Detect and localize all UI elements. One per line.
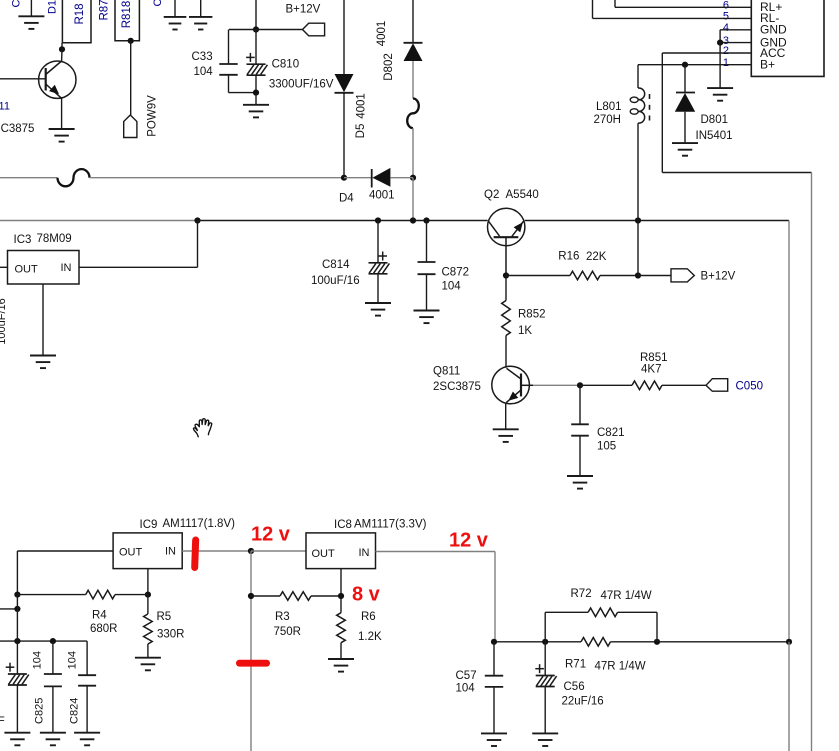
wire R4 left lead [17,594,85,596]
svg-text:105: 105 [597,441,616,453]
transistor Q2 arrow [514,222,523,232]
diode D5 cathode bar [335,92,354,94]
svg-text:R852: R852 [518,309,546,321]
wire C814 lower stem [377,274,379,303]
capacitor C825 [44,674,62,686]
wire C56 lower stem [544,687,546,734]
wire R818 to POW9V [130,41,132,116]
wire R3 left lead [251,595,280,597]
svg-text:12 v: 12 v [449,530,489,552]
resistor R71 zigzag [581,638,611,647]
svg-text:1.2K: 1.2K [358,631,382,643]
IC IC8 AM1117 box [306,533,376,569]
resistor R18 box [62,0,91,43]
svg-text:IN: IN [61,262,72,274]
svg-text:C33: C33 [192,51,213,63]
diode D801 cathode bar [676,92,695,94]
svg-text:B+: B+ [760,58,775,72]
wire pin4 GND [720,29,751,31]
svg-text:R3: R3 [275,611,290,623]
wire B+12V vertical from top [255,0,257,30]
wire C825 stem [52,641,54,674]
svg-text:C57: C57 [456,670,477,682]
IC IC3 78M09 box [8,251,80,285]
transistor Q2 stem [505,237,507,275]
wire IC3 IN up to bus [197,221,199,268]
svg-text:C: C [152,0,164,6]
svg-text:78M09: 78M09 [37,233,72,245]
ground under C821 [567,476,593,489]
capacitor C810 electrolytic [246,53,267,75]
ground under C814 [365,303,391,316]
transistor Q811 emitter arrow [508,392,518,401]
junction C825 tap [50,638,56,644]
wire R5 top lead [147,595,149,614]
wire B+ rail down right side [788,221,790,642]
transistor top-left emitter arrow [49,85,59,95]
wire hump to D4 junction [412,128,414,178]
svg-text:D5: D5 [355,124,367,139]
svg-text:R16: R16 [558,251,579,263]
svg-text:AM1117(1.8V): AM1117(1.8V) [163,518,236,530]
ground bottom-left 1 [4,733,30,746]
capacitor (electrolytic, bottom-left) [6,663,29,685]
wire pin1 B+ [638,64,751,66]
ground under connector pins [707,88,733,101]
wire collector from R18 bottom [61,43,63,50]
wire hump horizontal [58,169,90,186]
connector block box [751,0,824,76]
wire B+ down to coil [637,65,639,88]
svg-text:100uF/16: 100uF/16 [311,275,360,287]
transistor Q 2SC3875 top-left circle [39,61,76,98]
wire bottom rail right [611,641,791,643]
svg-text:22K: 22K [586,251,607,263]
capacitor C824 [78,675,96,686]
wire R72 branch right [618,611,657,613]
wire D4 line left segment [0,177,58,179]
svg-text:C872: C872 [442,267,470,279]
wire B+ node to flag [638,275,671,277]
wire gnd stem mid-2 [200,0,202,17]
svg-text:8 v: 8 v [352,584,381,606]
capacitor C57 [485,676,503,687]
svg-text:750R: 750R [274,626,302,638]
svg-text:104: 104 [194,66,214,78]
junction Q2 base node [503,272,509,278]
wire C810 bottom [255,75,257,92]
wire R6 top lead [340,596,342,613]
junction R3 tap [248,593,254,599]
transistor top-left collector slant [46,61,62,75]
transistor Q811 collector slant [507,368,522,379]
diode D802 cathode bar [404,42,423,44]
ground under transistor TL [49,129,75,142]
svg-text:AM1117(3.3V): AM1117(3.3V) [354,519,427,531]
wire R5 bottom lead [147,644,149,658]
svg-text:Q811: Q811 [433,366,460,378]
svg-text:1: 1 [723,57,729,69]
wire IC3 OUT lead [0,266,8,268]
wire hump vertical (ferrite loop) [407,99,419,129]
capacitor C33 [219,64,237,75]
svg-text:IC8: IC8 [334,519,352,531]
wire bottom rail left [494,641,581,643]
ground under R5 [135,658,161,671]
wire C824 stem [86,641,88,675]
wire left rail vertical [16,595,18,674]
wire R851 to C050 flag [662,384,706,386]
svg-text:2SC3875: 2SC3875 [433,381,481,393]
wire C56 stem [544,642,546,676]
svg-text:R6: R6 [361,611,376,623]
junction IC3 IN tap [194,217,200,223]
diode D4 cathode bar [371,169,373,188]
wire B+ rail below [788,642,790,751]
wire R72 branch right down [656,612,658,642]
IC IC9 AM1117 box [113,533,182,569]
ground under R6 [328,659,354,672]
svg-text:270H: 270H [594,114,622,126]
connector C050 flag (points left) [706,379,728,392]
connector B+12V flag (points right) [671,269,694,282]
diode D802 triangle [404,43,423,61]
capacitor C56 electrolytic [535,664,556,686]
junction R4/R5 node [145,592,151,598]
junction B+ rail bottom [786,639,792,645]
transistor Q2 circle [488,208,525,245]
ground under C872 [414,311,440,324]
junction D4/D802 [410,175,416,181]
svg-text:D801: D801 [701,114,729,126]
svg-text:R5: R5 [157,611,172,623]
wire main bus black [198,220,488,222]
svg-text:L801: L801 [596,101,622,113]
resistor R3 zigzag [280,592,311,601]
wire pin6 up [614,0,616,7]
svg-text:R818: R818 [121,1,133,29]
capacitor C814 electrolytic [369,252,390,274]
resistor R818 box [115,0,139,41]
wire D801 stem [684,65,686,93]
svg-text:12 v: 12 v [251,524,291,546]
wire ACC long vertical right [811,173,813,751]
svg-text:F: F [0,715,5,727]
svg-text:3300UF/16V: 3300UF/16V [269,79,334,91]
wire IC8 IN down [494,552,496,642]
svg-text:1K: 1K [518,325,532,337]
wire IC8 stem [340,569,342,596]
wire C57 lower stem [493,687,495,734]
wire emitter to ground TL [61,98,63,129]
wire left cap rail [0,640,87,642]
junction R4 left node [14,592,20,598]
ground bottom-left 2 [40,733,66,746]
svg-text:R18: R18 [74,3,86,24]
ground top-left [18,16,44,29]
transistor Q2 right slant [512,221,524,237]
wire pin5 up [592,0,594,18]
junction B+ rail tap [635,217,641,223]
wire bl ecap lower stem [16,685,18,733]
resistor R851 zigzag [632,381,662,390]
svg-text:C814: C814 [322,259,350,271]
wire Q2 to R852 [505,276,507,301]
svg-text:OUT: OUT [119,547,143,559]
svg-text:D802: D802 [383,53,395,81]
capacitor C821 [571,424,589,435]
resistor R6 zigzag [337,613,346,643]
wire 12v rail to IC8 [251,550,306,552]
wire C824 lower stem [86,686,88,733]
diode D801 triangle [675,93,695,112]
wire ACC down [661,53,663,173]
wire D4 line to cathode [344,177,372,179]
resistor R16 zigzag [570,271,600,280]
transistor Q811 circle [492,366,530,404]
svg-text:5: 5 [723,11,729,23]
svg-text:IN5401: IN5401 [696,130,733,142]
wire R72 branch left [545,611,588,613]
junction C872 tap [423,217,429,223]
svg-text:2: 2 [723,45,729,57]
svg-text:4001: 4001 [376,21,388,47]
svg-text:D1: D1 [46,0,58,14]
svg-text:IN: IN [359,547,370,559]
wire node to R851 [580,384,632,386]
svg-text:OUT: OUT [15,264,39,276]
junction Q811 base node [577,382,583,388]
svg-text:B+12V: B+12V [286,4,321,16]
ground under Q811 [493,429,519,442]
svg-text:22uF/16: 22uF/16 [562,696,604,708]
junction pins 3-4 [717,40,723,46]
wire B+ vertical between dots [637,221,639,276]
junction left stub [14,606,20,612]
junction B+ 12V node [635,272,641,278]
junction B+12V node [253,26,259,32]
ground under C56 [532,733,558,746]
wire pin2 ACC [662,52,751,54]
wire gnd stem top-left [30,0,32,16]
ground bottom-left 3 [74,733,100,746]
wire left stub 1.8v rail [0,608,17,610]
wire C825 lower stem [52,686,54,732]
ground under C810 [243,105,269,118]
wire C821 lower stem [579,436,581,476]
junction C814 tap [375,217,381,223]
wire D5 vertical top [343,0,345,74]
wire IC3 gnd stem [42,284,44,356]
junction B+ D801 tap [682,62,688,68]
wire R6 bottom lead [340,643,342,659]
svg-text:C811: C811 [0,101,10,113]
svg-text:4: 4 [723,22,729,34]
junction R818 bottom [128,38,134,44]
wire gnd stem pins [719,43,721,89]
svg-text:C824: C824 [68,698,80,724]
svg-text:C825: C825 [33,698,45,724]
wire IC3 IN lead [79,266,198,268]
wire IC9 IN lead [182,550,251,552]
svg-text:IC9: IC9 [140,519,158,531]
resistor R4 zigzag [86,590,115,599]
capacitor C872 [418,262,436,274]
svg-text:C56: C56 [564,681,585,693]
svg-text:2SC3875: 2SC3875 [0,123,34,135]
svg-text:4001: 4001 [356,93,368,119]
junction D5 bottom [341,175,347,181]
wire IC9 stem [147,569,149,595]
wire pin3 GND [720,42,751,44]
wire IC8 IN lead [376,551,496,553]
svg-text:R87: R87 [98,0,110,21]
ground under C57 [481,733,507,746]
junction cap rail left [14,638,20,644]
wire to B+12V flag [256,29,303,31]
wire pin5 RL- [593,17,752,19]
diode D4 triangle [372,168,390,187]
wire C821 stem [579,385,581,424]
svg-text:104: 104 [66,651,78,669]
svg-text:330R: 330R [157,629,185,641]
svg-text:R4: R4 [92,610,107,622]
svg-text:R851: R851 [640,352,668,364]
svg-text:104: 104 [456,683,476,695]
junction R3/R6 node [338,593,344,599]
junction C810 ground node [253,90,259,96]
svg-text:680R: 680R [90,623,118,635]
wire pin4 down [719,30,721,43]
svg-text:47R 1/4W: 47R 1/4W [595,661,646,673]
svg-text:IN: IN [165,546,176,558]
wire D802 to hump [412,61,414,99]
svg-text:POW9V: POW9V [147,95,159,137]
wire C872 lower stem [426,274,428,310]
transistor Q811 base lead inner [521,384,533,386]
wire C810 gnd stem [255,93,257,105]
inductor L801 core dashes [649,94,651,121]
svg-text:47R 1/4W: 47R 1/4W [601,590,652,602]
wire gnd stem mid-1 [174,0,176,17]
transistor top-left emitter slant [46,84,62,98]
svg-text:104: 104 [442,281,462,293]
svg-text:R71: R71 [565,659,586,671]
transistor top-left base lead [0,78,46,80]
ground top-mid-2 [189,17,212,30]
wire D802 vertical top [412,0,414,43]
wire R4 right lead [115,594,148,596]
transistor Q2 base bar [494,236,519,238]
resistor R5 zigzag [144,614,153,644]
wire down to C33 [228,30,230,65]
diode D5 triangle [335,74,354,92]
wire D4 junction to bus [412,178,414,221]
svg-text:D4: D4 [339,193,354,205]
junction R72 right node [654,639,660,645]
wire B+ node down to C810 [255,30,257,65]
wire C33 bottom [228,75,230,93]
wire C57 stem [493,642,495,676]
inductor L801 coil [638,88,645,123]
svg-text:104: 104 [31,651,43,669]
hand cursor icon [193,419,211,437]
wire R16 to B+ node [600,275,638,277]
svg-text:OUT: OUT [312,548,336,560]
svg-text:C: C [11,0,23,7]
wire R72 branch left up [544,612,546,642]
wire IC9 OUT lead [17,550,113,552]
ground under IC3 [30,356,56,369]
connector POW9V flag [124,115,137,138]
wire C814 stem [377,221,379,263]
svg-text:B+12V: B+12V [701,271,736,283]
wire R3 right lead [311,595,341,597]
svg-text:100uF/16: 100uF/16 [0,298,8,344]
svg-text:A5540: A5540 [506,189,539,201]
wire coil to bus [637,123,639,220]
wire C33 to C810 node [229,92,257,94]
wire D801 to gnd [684,112,686,143]
svg-text:C821: C821 [597,427,625,439]
wire R852 to Q811 [505,336,507,368]
red highlight bar vertical [191,536,199,571]
wire 12v vertical down [250,551,252,751]
transistor Q2 left slant [489,221,500,236]
wire Q811 base to node [533,384,580,386]
resistor R852 zigzag [502,301,511,336]
wire D4 line mid segment [90,177,345,179]
junction 12v node [248,548,254,554]
wire Q811 emitter stem [505,403,507,430]
transistor Q811 base bar [520,374,522,397]
wire D4 to junction [390,177,413,179]
wire main bus right of Q2 [525,220,789,222]
wire main bus gray left [0,220,198,222]
wire ACC horizontal bottom [662,172,811,174]
ground under D801 [672,143,698,156]
svg-text:C810: C810 [272,59,300,71]
junction C57 node [491,639,497,645]
ground top-mid-1 [164,17,187,30]
wire left branch to C33 [229,29,256,31]
wire D5 to D4 line [343,93,345,178]
wire IC9 OUT down left [16,551,18,595]
svg-text:4K7: 4K7 [641,364,661,376]
wire pin6 RL+ [615,6,751,8]
svg-text:IC3: IC3 [14,234,32,246]
svg-text:4001: 4001 [369,190,395,202]
wire to transistor collector [61,49,63,61]
wire Q2 node to R16 [506,275,570,277]
red highlight bar horizontal [236,660,270,667]
connector B+12V flag (points left) [303,23,325,36]
svg-text:Q2: Q2 [484,189,499,201]
junction D-line tap [410,217,416,223]
svg-text:C050: C050 [736,381,764,393]
wire C872 stem [426,221,428,263]
junction base of R18 wire [59,46,65,52]
resistor R72 zigzag [588,608,618,617]
svg-text:R72: R72 [571,588,592,600]
transistor top-left base bar [45,68,47,91]
junction C56 node [542,639,548,645]
transistor Q811 emitter slant [506,390,521,403]
